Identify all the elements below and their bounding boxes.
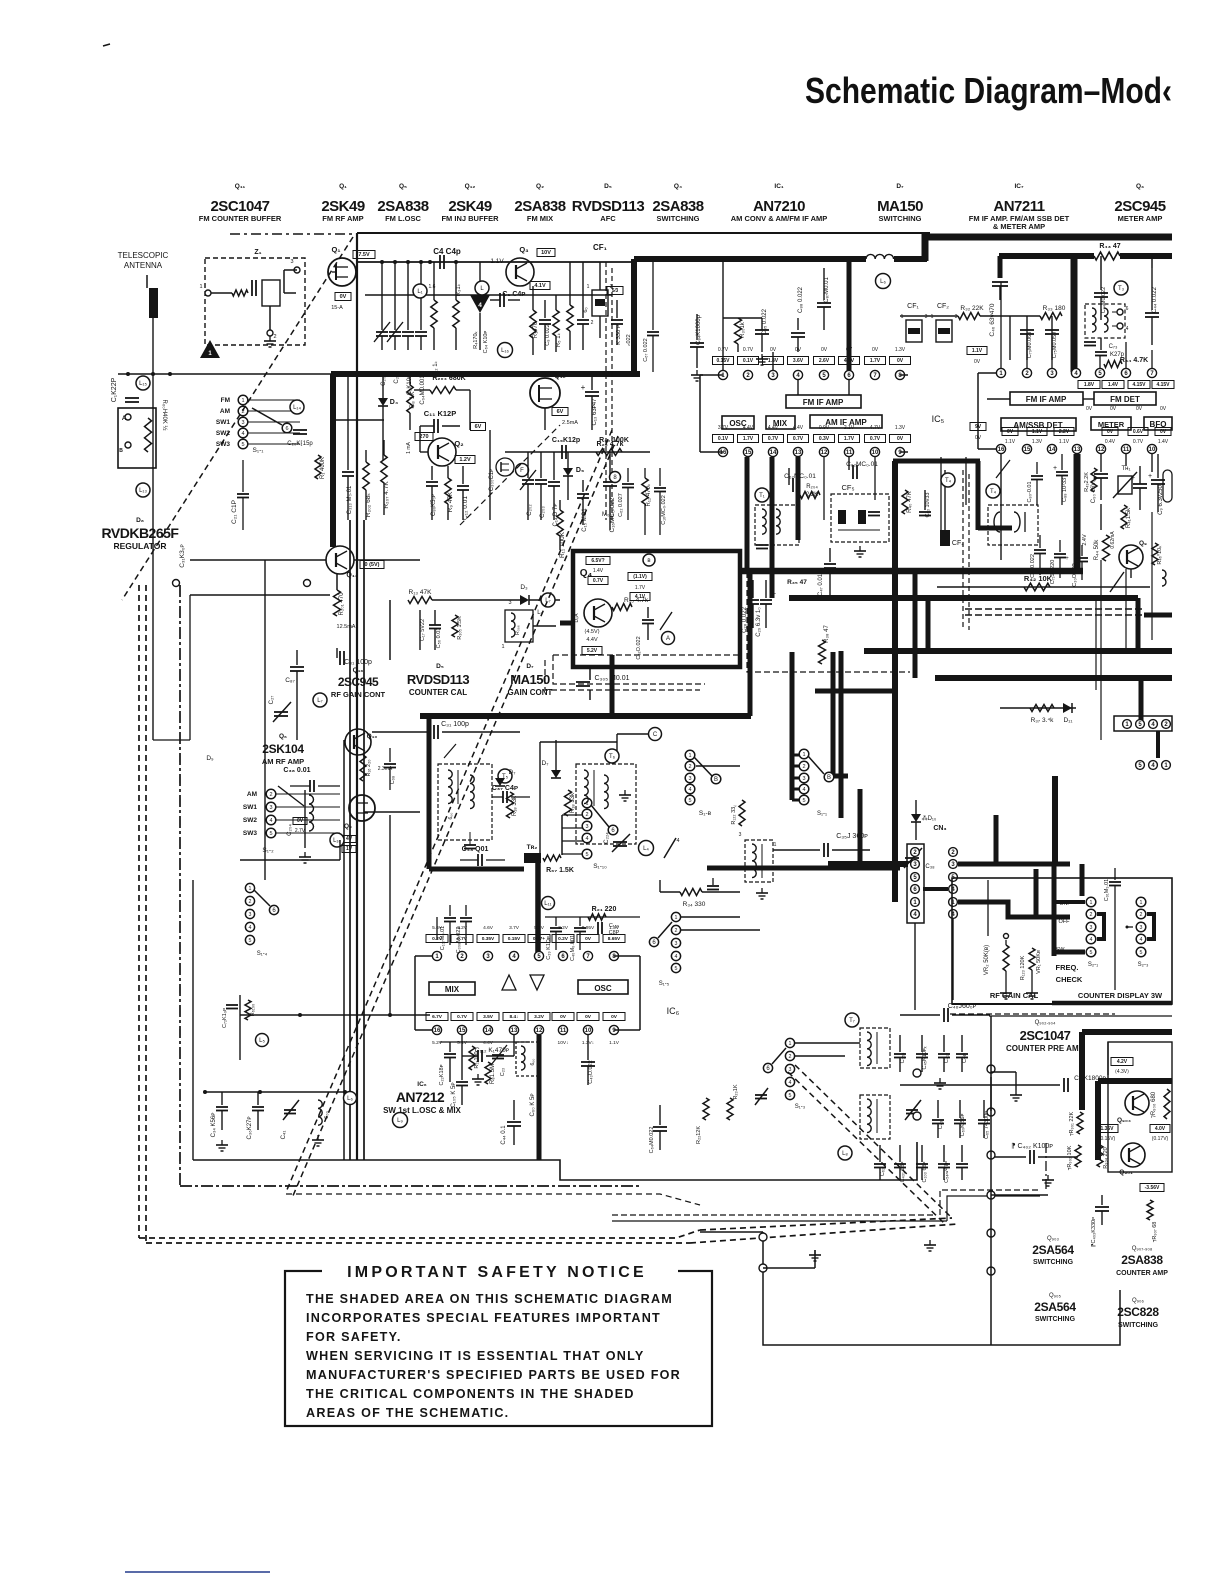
svg-text:C₈₆K5₀ᴘ: C₈₆K5₀ᴘ [431,494,437,516]
svg-text:L₆: L₆ [880,279,886,285]
svg-text:VR₂ 50K(ʙ): VR₂ 50K(ʙ) [984,945,990,975]
thin wires switch area [539,742,541,860]
svg-text:R₂₀₄: R₂₀₄ [806,484,818,490]
svg-text:C₈₇M0.01: C₈₇M0.01 [824,277,830,303]
voltage box 4.2V [1111,1058,1133,1066]
trimmer C202 [527,452,529,478]
inductor L15 [136,376,150,390]
wire R37 3.1k [1000,707,1076,709]
svg-text:Q₂: Q₂ [536,183,544,190]
svg-text:B: B [714,777,718,783]
svg-text:4: 4 [269,818,272,824]
svg-text:13: 13 [511,1028,518,1034]
wires around Q11 [190,594,330,596]
svg-text:C₂₀₂: C₂₀₂ [527,504,533,516]
svg-text:Q₁₀: Q₁₀ [367,733,378,740]
svg-text:3: 3 [688,776,691,782]
cap C15 MO1 [582,480,584,492]
svg-text:R₁₂₃ 120K: R₁₂₃ 120K [1020,955,1026,980]
cap C98 col [389,748,391,762]
T5 dashed coil box [438,764,492,840]
wire FM rf top row [356,261,634,263]
transformer T3 dashed box [1085,304,1125,338]
inductor L13 [136,483,150,497]
svg-text:0V: 0V [585,1014,592,1020]
MIX box IC6 [429,982,475,995]
svg-text:0V: 0V [974,359,981,365]
svg-text:AN7210: AN7210 [753,198,805,215]
resistor R38 47 vertical [819,640,826,664]
svg-text:0.7V: 0.7V [1133,439,1144,445]
svg-text:SWITCHING: SWITCHING [1118,1322,1159,1329]
cap C39 K1Dp [555,917,557,926]
trimmer C203 [540,452,542,478]
blue rule bottom left [125,1571,270,1573]
svg-text:L₈: L₈ [842,1151,848,1157]
svg-text:TELESCOPIC: TELESCOPIC [118,251,169,260]
svg-text:1.4V: 1.4V [1158,439,1169,445]
svg-text:R₁₃100: R₁₃100 [474,1051,480,1068]
svg-text:270: 270 [419,434,428,440]
svg-text:+: + [1131,475,1135,482]
svg-text:2SC1047: 2SC1047 [210,198,269,215]
svg-text:C₃₅J 360ᴘ: C₃₅J 360ᴘ [836,833,868,840]
svg-text:6.5V?: 6.5V? [591,558,604,564]
svg-text:Q₉₀₃: Q₉₀₃ [1047,1236,1060,1242]
T4 dashed box [988,505,1038,545]
svg-text:Q₃: Q₃ [1136,183,1144,190]
resistor R204 2.2K [800,492,820,499]
svg-text:6₀₀: 6₀₀ [448,813,454,820]
BFO box IC7 [1144,417,1172,430]
cap C41 trim [284,1109,296,1111]
svg-text:R₄₁⁦1.5k: R₄₁⁦1.5k [1126,507,1132,528]
svg-text:4: 4 [676,838,679,844]
svg-text:R₃₄ 330: R₃₄ 330 [683,901,706,908]
svg-text:D₆A: D₆A [574,613,580,623]
svg-text:3: 3 [508,600,511,606]
svg-text:C₄₁₂: C₄₁₂ [944,1053,950,1063]
bold stub to C46 [998,256,1003,278]
svg-text:1: 1 [931,314,934,320]
svg-text:2: 2 [1140,912,1143,918]
svg-text:C₄₃ Q01: C₄₃ Q01 [462,846,489,853]
AM/SSB DET box IC7 [1001,418,1076,431]
svg-text:C₈ 0.022: C₈ 0.022 [545,324,551,346]
FM IF AMP box IC5 [786,395,861,408]
resistor R40 47K [902,490,908,514]
small box 53 [607,287,623,295]
svg-text:0V: 0V [1136,406,1143,412]
svg-text:0V: 0V [1086,406,1093,412]
bold feed to IC5 pin6 [847,259,852,374]
wires S1-3 [795,1042,860,1044]
svg-text:AM: AM [247,791,257,798]
inductor L14 [290,400,304,414]
svg-text:MANUFACTURER'S SPECIFIED PARTS: MANUFACTURER'S SPECIFIED PARTS BE USED F… [306,1368,681,1382]
inductor L circled b [475,281,489,295]
left small parts C72 [239,995,241,1060]
switch S1-5 mid [671,912,680,921]
transistor Q1 FET [328,258,356,286]
svg-text:16: 16 [998,447,1005,453]
cap C2 K10p [407,262,409,330]
svg-text:C₇₅M0.059: C₇₅M0.059 [1052,332,1058,358]
svg-text:F: F [520,468,524,474]
svg-text:1V: 1V [346,846,353,852]
svg-text:C₂₀₄: C₂₀₄ [287,824,293,836]
svg-text:2.5mA: 2.5mA [562,420,578,426]
svg-text:5.2V: 5.2V [587,648,598,654]
cluster C22K18p [449,1042,451,1052]
svg-text:L₉: L₉ [397,1118,403,1124]
svg-text:Tʜ₁: Tʜ₁ [1121,466,1130,472]
bold branch x833 [833,652,848,776]
resistor R25 4.7k [612,604,632,611]
svg-text:B: B [119,448,123,454]
coil left bottom [318,1100,322,1125]
TR2 ferrite bar [524,853,541,863]
svg-text:AFC: AFC [600,214,616,223]
svg-text:1: 1 [774,842,777,848]
wire to pin3 [737,344,739,352]
wire bottom box [700,1231,763,1233]
svg-text:AM IF AMP: AM IF AMP [825,418,867,427]
diode D10 [915,800,917,814]
svg-text:D₃: D₃ [520,584,528,591]
junction nodes column [987,1065,995,1073]
svg-text:D₅: D₅ [436,663,444,670]
Z1 crystal dashed box [205,258,305,345]
svg-text:IMPORTANT SAFETY NOTICE: IMPORTANT SAFETY NOTICE [347,1264,647,1281]
warning triangle 4 [470,295,490,313]
svg-text:MIX: MIX [773,419,788,428]
svg-text:C₂₂K18ᴘ: C₂₂K18ᴘ [439,1064,445,1085]
svg-text:4: 4 [802,787,805,793]
trimmer r2 [906,1109,918,1111]
svg-text:11: 11 [1123,447,1130,453]
svg-text:3: 3 [802,776,805,782]
wire q2 base [419,426,421,452]
svg-text:1.1V: 1.1V [490,258,504,265]
svg-text:C₃₁K3₀ᴘ: C₃₁K3₀ᴘ [179,544,186,568]
wire cluster top [440,1041,530,1043]
cap C75M 0.059 [1045,329,1059,331]
svg-text:1: 1 [241,398,244,404]
cap C46 J360p [900,1014,940,1016]
svg-text:C₃₁₃ M₀.01: C₃₁₃ M₀.01 [347,485,353,514]
svg-text:5: 5 [789,1093,792,1099]
switch wiper 2 [278,786,304,806]
svg-text:L₇: L₇ [317,698,322,704]
svg-text:METER AMP: METER AMP [1118,214,1163,223]
bold rail R43 section [999,253,1094,259]
voltage boxes q9 [293,818,307,825]
svg-text:L₁₃: L₁₃ [139,488,147,494]
trimmer right [755,1088,768,1105]
svg-text:A: A [666,636,670,642]
svg-text:R₃₄ 4.7K: R₃₄ 4.7K [1120,357,1148,364]
diagonal dashed DG2 [286,430,612,1192]
FM DET box IC7 [1094,392,1156,405]
diode D9 [567,452,569,468]
cap C35J 360p [773,849,820,851]
top right verticals [1100,256,1102,270]
svg-text:1: 1 [587,284,590,290]
svg-text:R₃₅ 47: R₃₅ 47 [787,579,807,586]
svg-text:CF₅: CF₅ [841,483,854,492]
svg-text:4.1V: 4.1V [534,283,546,289]
cap C87 left [296,650,298,665]
svg-text:R₆₇ 1.5K: R₆₇ 1.5K [546,867,574,874]
svg-text:C₃₀₈M₀022: C₃₀₈M₀022 [456,927,462,954]
svg-text:15: 15 [1024,447,1031,453]
bold feed vertical 1054 [1052,864,1057,956]
resistor R33 180 [1040,313,1062,320]
svg-text:⁊R₉₀₆ 680: ⁊R₉₀₆ 680 [1151,1091,1157,1118]
cap C28 0.022 [752,580,754,598]
circled 8 [610,472,621,483]
CN3 left strip [907,844,924,923]
svg-text:0V: 0V [1110,406,1117,412]
gnd CF5 [859,546,861,551]
svg-text:FM: FM [221,397,230,404]
pins 1542 [1123,720,1132,729]
diode D7 [495,778,505,786]
svg-text:IC₅: IC₅ [932,414,945,424]
svg-text:1: 1 [901,314,904,320]
short diagonal dashed [460,425,560,525]
svg-text:Q₅: Q₅ [399,183,407,190]
wires counter area [990,1016,992,1345]
cluster caps above IC5 [722,261,724,370]
svg-text:Q₉: Q₉ [344,823,352,830]
svg-text:L₁₁: L₁₁ [544,901,551,907]
VR2 50K resistor [1005,940,1007,945]
svg-text:R₆₀H40K ½: R₆₀H40K ½ [161,400,168,431]
svg-text:C₁₃ 63ᴘ47: C₁₃ 63ᴘ47 [592,398,598,426]
bold H y868 L4 row [707,866,900,871]
svg-text:FOR SAFETY.: FOR SAFETY. [306,1330,402,1344]
svg-text:5.2V: 5.2V [432,1040,443,1046]
pointer A [662,632,675,645]
cap C30 0.022 [1081,545,1083,556]
svg-text:R₅ 1ₖ: R₅ 1ₖ [556,332,562,347]
bold branch y691 [815,689,895,694]
trimmer C38 [905,857,919,859]
svg-text:C₉₈: C₉₈ [390,776,396,784]
cap C8 0.022 [544,300,546,318]
node to Q4 box [533,625,556,627]
cap C91 M0.01 [1114,868,1116,880]
CF5 contents [838,510,846,524]
svg-text:(1.1V): (1.1V) [633,574,647,580]
svg-text:M₀₀₁: M₀₀₁ [602,512,614,518]
svg-text:D₅: D₅ [604,183,612,190]
svg-text:R₂₂⁡12K: R₂₂⁡12K [696,1126,702,1144]
cap C105 K5P [461,1056,463,1080]
svg-text:0V: 0V [821,347,828,353]
svg-text:C₈₈ 0.022: C₈₈ 0.022 [798,286,804,313]
svg-text:0V: 0V [297,818,304,824]
amp arrows IC6 [502,975,516,990]
svg-text:5: 5 [675,966,678,972]
svg-text:0.7V: 0.7V [793,436,804,442]
svg-text:4: 4 [249,925,252,931]
svg-text:R₃⁦1ₖ: R₃⁦1ₖ [456,283,462,296]
svg-text:R₄₂ 10K: R₄₂ 10K [1024,574,1053,583]
svg-text:1 mA: 1 mA [406,442,412,454]
wires meter region [1000,454,1002,560]
svg-text:C₈₀-0.01: C₈₀-0.01 [1027,481,1033,502]
svg-text:C₄₁: C₄₁ [281,1131,287,1140]
svg-text:3: 3 [1140,925,1143,931]
dashed rail y615 [965,608,1144,610]
svg-text:5: 5 [1090,950,1093,956]
bold CN3 entry [828,861,908,867]
svg-text:1.2V: 1.2V [459,457,471,463]
svg-text:3: 3 [925,314,928,320]
coil dashed box r2 [860,1095,890,1139]
schematic frame top edge [357,232,930,234]
cap C1 C4P [499,293,501,307]
cap C43 0.022 [587,1035,589,1060]
svg-text:C₃₁ 100p: C₃₁ 100p [441,721,469,728]
svg-text:Q₁: Q₁ [339,183,347,190]
cap C88 0.022 [797,318,799,330]
counter cal parts [419,610,421,650]
transistor Q904 [1125,1091,1149,1115]
svg-text:2SC1047: 2SC1047 [1020,1028,1071,1043]
cap C64M 0.022 [659,1105,661,1125]
cap C70M 0.068 [1020,329,1034,331]
IC7 pin row 16-10 [996,444,1005,453]
transistor Q4 [584,599,612,627]
S2-3 pins [1136,897,1146,907]
svg-text:T₃: T₃ [1118,286,1125,292]
cap C62 0.022 [647,607,649,618]
svg-text:R₁₈ 33k: R₁₈ 33k [570,792,576,813]
svg-text:10: 10 [872,450,879,456]
cap C87M 0.01 [823,268,825,300]
L11 circled [542,897,555,910]
svg-text:WHEN SERVICING IT IS ESSEN: WHEN SERVICING IT IS ESSENTIAL THAT ONLY [306,1349,645,1363]
bold corner x1082 [1080,864,1085,896]
svg-text:6: 6 [285,426,288,432]
svg-text:4.6V: 4.6V [483,925,494,931]
T4 right circled [941,473,955,487]
svg-text:C₆₀ K 5ᴘ: C₆₀ K 5ᴘ [530,1093,536,1116]
svg-text:S₁-₂: S₁-₂ [262,847,274,854]
wire bus am tuner [389,815,391,1015]
svg-text:C₁₉K12p: C₁₉K12p [552,437,580,444]
svg-text:R₂₃⁦1K: R₂₃⁦1K [733,1084,739,1099]
svg-text:0.7V: 0.7V [743,347,754,353]
svg-text:C₁₁ K12P: C₁₁ K12P [424,409,456,418]
svg-text:C₃₀O.022: C₃₀O.022 [1072,563,1078,586]
svg-text:4.2V: 4.2V [1117,1059,1128,1065]
cap C20K45p [293,429,307,431]
antenna element [149,288,158,318]
svg-text:L₁₅: L₁₅ [139,381,147,387]
svg-text:Q₉₀₄: Q₉₀₄ [1117,1117,1131,1124]
T6 dashed coil box [576,764,636,844]
svg-text:BFO: BFO [1150,420,1167,429]
cap C90 16V [1100,454,1102,472]
gnd stubs IC5 top [696,370,698,375]
bold horizontal y651 [864,648,1172,654]
svg-text:GAIN CONT: GAIN CONT [508,688,553,697]
svg-text:0V: 0V [560,1014,567,1020]
warning triangle 1 [200,340,220,358]
svg-text:C₄₅K10ᴘₓ: C₄₅K10ᴘₓ [922,1046,928,1069]
bold branch x895 [892,461,898,902]
bracket S2-3 [1147,914,1154,939]
svg-text:AREAS OF THE SCHEMATIC.: AREAS OF THE SCHEMATIC. [306,1406,509,1420]
svg-text:0.1V: 0.1V [718,436,729,442]
cap C63 10v33 [924,490,926,510]
electro cap C13 63v47 [591,374,593,390]
svg-text:R₃₀⁦1k: R₃₀⁦1k [740,321,746,338]
svg-text:2: 2 [789,1054,792,1060]
svg-text:C₆₀K 56ᴘ: C₆₀K 56ᴘ [960,1114,966,1137]
svg-text:1: 1 [199,284,202,290]
svg-text:C₇₀M0.068: C₇₀M0.068 [1027,332,1033,359]
resistor R12 470k [644,468,646,478]
resistor R1 400K [315,455,321,479]
svg-text:C₅₆ 0.01: C₅₆ 0.01 [436,628,442,649]
cap C61 K1800P [900,1084,1060,1086]
svg-text:SWITCHING: SWITCHING [879,214,922,223]
cap C40 M0.001 [579,917,581,926]
svg-text:C₄₆J60₀ᴘ: C₄₆J60₀ᴘ [948,1003,977,1010]
svg-text:VR₁ 50Kʀ: VR₁ 50Kʀ [1036,950,1042,974]
wire top [989,1015,1172,1017]
cap C4 C4p series [439,255,441,269]
voltage -3.56V [1140,1184,1164,1192]
svg-text:C₆₇ 0.022: C₆₇ 0.022 [643,338,649,361]
svg-text:0.15V: 0.15V [508,936,521,942]
svg-text:L₁₆: L₁₆ [501,348,509,354]
svg-text:⁊R₉₀₁ 22K: ⁊R₉₀₁ 22K [1069,1112,1075,1137]
svg-text:12: 12 [536,1028,543,1034]
column x583 cap [582,262,584,318]
bold horizontal y571 [741,568,1083,575]
bold bracket S2-1 [1097,914,1104,939]
caps row under CF [1009,316,1011,360]
svg-text:CF₄: CF₄ [952,540,964,547]
T3 windings [1092,308,1096,332]
svg-text:D₇: D₇ [526,663,534,670]
resistor R13 100 [469,1046,475,1070]
cap C47 0.01 [829,548,831,562]
gnd VR [1005,988,1007,993]
gnd bottom left [221,1140,223,1145]
svg-text:S₁-₄: S₁-₄ [257,951,268,957]
crystal Z1 symbol [205,290,211,296]
bold branch x860 CN area [858,789,863,864]
svg-text:2: 2 [249,899,252,905]
jack box [118,408,156,468]
svg-text:0V: 0V [1160,406,1167,412]
svg-text:D₇: D₇ [509,769,516,776]
svg-text:3.7V: 3.7V [509,925,520,931]
svg-text:L₁: L₁ [417,289,422,295]
svg-text:R₁ 400K: R₁ 400K [320,457,326,479]
cap C62MC001 [848,457,850,470]
svg-text:12: 12 [1098,447,1105,453]
cap C37 C4p [502,791,504,803]
